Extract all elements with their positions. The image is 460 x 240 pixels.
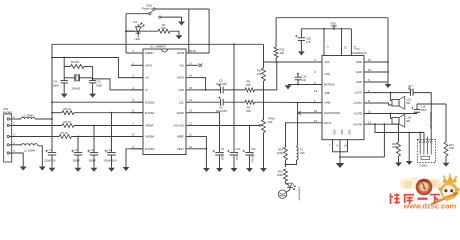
svg-text:10: 10 — [189, 145, 192, 149]
svg-text:-INB: -INB — [324, 91, 330, 95]
wire C13 top to +INA line — [297, 74, 299, 77]
wire R12 drop — [275, 18, 277, 47]
wire VDD to U2 top pin b — [341, 29, 343, 56]
VR1A wiper arrow — [259, 124, 261, 126]
svg-text:100K: 100K — [277, 151, 283, 155]
node -OUTB speaker tap — [390, 113, 392, 115]
wire volume column top — [263, 44, 265, 68]
svg-text:GND: GND — [340, 130, 343, 136]
svg-text:-OUTA: -OUTA — [354, 91, 362, 95]
node rail R5 — [51, 112, 53, 114]
capacitor C14 (OUTB coupling) — [414, 109, 420, 111]
svg-text:+ C2: + C2 — [73, 148, 79, 152]
svg-text:R13: R13 — [449, 143, 454, 147]
wire -OUTA to LS1 top — [390, 93, 392, 101]
capacitor C11 — [245, 152, 253, 154]
svg-text:14: 14 — [189, 98, 192, 102]
ground C9 — [89, 94, 96, 98]
svg-text:U1 CM8870: U1 CM8870 — [150, 45, 166, 49]
svg-text:PWDN: PWDN — [145, 51, 154, 55]
node GND rail b — [387, 71, 389, 73]
svg-text:DVDD2: DVDD2 — [145, 100, 155, 104]
wire pin18 loop top edge — [189, 8, 209, 10]
wire switch common to rail — [126, 13, 149, 15]
wire C10 to ground — [233, 155, 235, 168]
ground C4 — [108, 168, 115, 172]
wire VDD to U2 top pin a — [323, 29, 325, 56]
svg-text:10R: 10R — [449, 146, 454, 150]
wire -INA line — [264, 61, 323, 63]
wire switch lower throw — [161, 17, 182, 21]
svg-text:0.1uF: 0.1uF — [235, 154, 239, 161]
svg-text:C8: C8 — [54, 79, 58, 83]
svg-text:22K: 22K — [246, 83, 251, 87]
wire GND rail right — [387, 18, 389, 83]
connector CN1 pins — [7, 118, 9, 120]
ground R13 — [443, 163, 450, 167]
speaker LS1 — [392, 100, 399, 107]
svg-text:10K: 10K — [161, 26, 166, 30]
wire DVDD1 pin9 ground stem — [126, 149, 143, 167]
svg-text:220uF/16: 220uF/16 — [44, 159, 56, 163]
svg-text:+ C4: + C4 — [107, 148, 113, 152]
svg-text:LM4863/CS: LM4863/CS — [352, 51, 367, 55]
svg-text:AVDD: AVDD — [177, 111, 184, 115]
U1 left pin stubs and numbers — [131, 52, 143, 54]
svg-text:10K: 10K — [268, 120, 273, 124]
wire pin18 stub — [186, 52, 209, 54]
svg-text:8R: 8R — [407, 119, 410, 123]
connector CN1 — [4, 114, 12, 162]
svg-text:15MHZ: 15MHZ — [72, 86, 81, 90]
ground upper (switch throw) — [178, 22, 185, 26]
node C3 tap — [93, 125, 95, 127]
ground BYPASS — [285, 85, 292, 89]
ground TEST — [203, 168, 210, 172]
wire +OUTA to LS1 bottom — [364, 103, 392, 105]
wire C3 stem — [93, 126, 95, 153]
wire C4 stem — [111, 113, 113, 152]
LED D2 — [287, 183, 292, 187]
jack J1 contacts — [419, 141, 421, 143]
node C11 tap — [249, 125, 251, 127]
svg-text:LOL: LOL — [179, 100, 185, 104]
svg-text:0.1uF: 0.1uF — [221, 154, 225, 161]
svg-text:R9: R9 — [247, 105, 251, 109]
svg-text:T1: T1 — [300, 147, 304, 151]
svg-text:+ C3: + C3 — [89, 148, 95, 152]
watermark title — [390, 194, 401, 205]
ground C16 — [298, 51, 305, 55]
svg-text:VDD: VDD — [330, 21, 336, 25]
svg-text:4: 4 — [133, 86, 135, 90]
ground C8 — [61, 94, 68, 98]
resistor R8 — [245, 88, 255, 92]
potentiometer VR1A — [262, 120, 266, 133]
svg-text:HP-IN: HP-IN — [324, 121, 331, 125]
wire AVDD pin13 line — [198, 113, 219, 152]
node C2 tap — [77, 136, 79, 138]
svg-text:2: 2 — [133, 61, 135, 65]
wire LOL line — [198, 101, 220, 103]
svg-text:SHUTDOWN: SHUTDOWN — [324, 111, 340, 115]
op-amp U2 body — [322, 56, 364, 140]
wire LED to R1 — [138, 30, 158, 32]
power VDD symbol — [333, 26, 335, 29]
bell symbol — [278, 190, 286, 198]
wire +OUTB extension — [392, 123, 399, 125]
crystal Y1 — [74, 74, 76, 81]
wire LOR line — [198, 89, 220, 91]
wire C2 stem — [77, 137, 79, 153]
svg-text:LED: LED — [135, 37, 140, 41]
wire crystal top line — [52, 58, 143, 78]
resistor R9 — [245, 100, 255, 104]
svg-text:R10: R10 — [257, 68, 262, 72]
wire U2 bottom to ground — [339, 152, 341, 163]
node C4 tap — [111, 112, 113, 114]
node -OUTA speaker tap — [390, 92, 392, 94]
switch SW1 — [153, 8, 155, 10]
wire L1 to rail — [35, 118, 52, 120]
wire R10B to VR1A — [263, 81, 265, 120]
svg-text:+INA: +INA — [324, 72, 330, 76]
svg-text:NC: NC — [180, 63, 184, 67]
svg-text:TEST: TEST — [177, 147, 184, 151]
svg-text:VOLADJ: VOLADJ — [174, 124, 185, 128]
capacitor C16 — [298, 37, 305, 39]
resistor R4 — [64, 66, 70, 68]
svg-text:17: 17 — [189, 61, 192, 65]
svg-text:XI: XI — [145, 88, 148, 92]
svg-text:LOR: LOR — [178, 88, 184, 92]
wire pin16 jog down — [198, 78, 205, 90]
svg-text:3.5 phone jack: 3.5 phone jack — [429, 113, 432, 130]
wire pin18 loop right vertical — [208, 9, 210, 53]
wire HP-IN line — [286, 123, 323, 147]
resistor R10B — [262, 68, 266, 81]
wire R16 feed — [398, 124, 400, 142]
svg-text:VINDP: VINDP — [145, 124, 154, 128]
node crystal left top — [63, 57, 65, 59]
svg-text:GND: GND — [356, 60, 362, 64]
wire VREF pin11 line — [198, 136, 206, 138]
svg-text:R8: R8 — [247, 80, 251, 84]
wire R1 to ground — [170, 31, 179, 35]
svg-text:+OUTA: +OUTA — [353, 101, 362, 105]
svg-text:6: 6 — [133, 109, 135, 113]
wire +OUTB to sleeve gnd line — [383, 124, 385, 157]
svg-text:10K: 10K — [280, 51, 285, 55]
resistor R16 — [397, 142, 401, 156]
svg-text:VINDM: VINDM — [145, 135, 155, 139]
node line A gnd tap — [408, 132, 410, 134]
wire C6 to R9 — [223, 101, 245, 103]
wire line A to jack pin2 — [423, 133, 425, 142]
svg-text:R15: R15 — [278, 169, 283, 173]
svg-text:GND: GND — [356, 80, 362, 84]
svg-text:R5 1K: R5 1K — [64, 107, 72, 111]
svg-text:10K: 10K — [300, 151, 305, 155]
svg-text:7: 7 — [133, 122, 135, 126]
svg-text:2: 2 — [326, 46, 330, 48]
jack J1 dashed box — [417, 139, 435, 162]
svg-text:100uF/16V: 100uF/16V — [104, 159, 117, 163]
wire C7 to ground — [219, 155, 221, 168]
ground R16 — [395, 163, 402, 167]
wire C1 to ground — [51, 155, 53, 168]
resistor R13 — [444, 142, 448, 156]
node GND rail a — [387, 61, 389, 63]
wire crystal left node — [63, 58, 65, 81]
inductor L2 — [21, 144, 38, 146]
pin17 NC mark — [199, 64, 203, 68]
svg-text:C13: C13 — [302, 75, 307, 79]
svg-text:AVSS: AVSS — [177, 76, 184, 80]
svg-text:1uF: 1uF — [302, 78, 307, 82]
wire C14 bottom — [416, 112, 418, 114]
ground L2 — [39, 167, 46, 171]
wire R12 to node A — [275, 58, 277, 63]
wire pin18 loop left vertical — [188, 9, 190, 53]
ground C2 — [75, 168, 82, 172]
wire -OUTB line — [364, 113, 417, 115]
capacitor C13 (bypass) — [295, 76, 302, 78]
node rail pin5 — [51, 101, 53, 103]
svg-text:3: 3 — [314, 70, 316, 74]
LED D1 — [126, 30, 138, 32]
wire R16 to ground — [398, 156, 400, 163]
capacitor C5 (LOR coupling) — [220, 86, 222, 93]
svg-text:10uF/25V: 10uF/25V — [216, 109, 228, 113]
wire +OUTB to LS2 bottom — [364, 123, 392, 125]
ground C11 — [246, 168, 253, 172]
svg-text:C7: C7 — [221, 147, 225, 151]
wire BYPASS to ground — [288, 84, 322, 86]
svg-text:C11: C11 — [251, 147, 256, 151]
svg-text:C16: C16 — [306, 36, 311, 40]
wire CN1 pin3 to R7 — [9, 136, 59, 138]
svg-text:33pF: 33pF — [53, 83, 59, 87]
node rail-LED junction — [125, 30, 127, 32]
resistor R7 — [59, 135, 72, 139]
svg-text:33pF: 33pF — [96, 83, 102, 87]
svg-text:R4 1M: R4 1M — [71, 60, 80, 64]
svg-text:PHONE: PHONE — [3, 110, 12, 114]
svg-text:1: 1 — [133, 49, 135, 53]
node top rail / middle rail — [233, 43, 235, 45]
wire VREF-TEST vertical — [205, 137, 207, 169]
svg-text:13: 13 — [314, 89, 318, 93]
svg-text:16: 16 — [189, 74, 192, 78]
svg-text:GND: GND — [348, 130, 351, 136]
wire CN1 pin2 to R6 — [9, 125, 62, 127]
svg-text:R7 1K: R7 1K — [61, 131, 69, 135]
wire R6 to pin7 — [74, 125, 143, 127]
wire mute top line — [276, 17, 388, 19]
svg-text:18: 18 — [189, 49, 192, 53]
wire C11 stem — [249, 126, 251, 153]
svg-text:DVSS2: DVSS2 — [145, 111, 155, 115]
ground VR1A — [260, 168, 267, 172]
wire LED branch — [126, 30, 135, 32]
inductor T1 — [297, 147, 299, 160]
wire R9 to U2 +INB — [255, 101, 323, 103]
wire CN1 pin5 down — [9, 153, 23, 167]
resistor R6 — [62, 124, 74, 128]
resistor R12 — [274, 47, 278, 58]
wire C2 to ground — [77, 155, 79, 168]
svg-text:+OUTB: +OUTB — [353, 122, 362, 126]
inductor L1 — [21, 117, 35, 119]
wire switch top throw to pin18 loop — [155, 8, 189, 10]
svg-text:14: 14 — [344, 143, 347, 147]
svg-text:VR1A: VR1A — [268, 117, 275, 121]
ground pin9 — [123, 167, 130, 171]
svg-text:7: 7 — [329, 143, 331, 147]
svg-text:DVDD1: DVDD1 — [145, 147, 155, 151]
svg-text:R12: R12 — [280, 47, 285, 51]
node VREF-TEST — [206, 148, 208, 150]
svg-text:Power on: Power on — [142, 7, 154, 11]
resistor R15 — [284, 169, 288, 181]
capacitor C4 — [107, 152, 115, 154]
wire line A to jack pin1 — [419, 133, 421, 142]
svg-text:L2 10MH: L2 10MH — [24, 149, 35, 153]
wire U2 bottom pin stubs — [332, 140, 334, 152]
wire top rail edge — [52, 43, 264, 45]
wire C14 top to R13 rail — [416, 104, 418, 110]
svg-text:C17: C17 — [408, 84, 413, 88]
svg-text:D1: D1 — [134, 20, 138, 24]
wire middle rail vertical — [233, 44, 235, 152]
svg-text:GPIO: GPIO — [145, 63, 153, 67]
wire CN1 pin4 to L2 — [9, 144, 21, 146]
wire +INB branch down — [297, 103, 298, 147]
wire SHUTDOWN stub — [299, 112, 322, 114]
wire -OUTA line — [364, 92, 411, 94]
wire R8 to node A — [255, 62, 277, 90]
svg-text:8: 8 — [133, 133, 135, 137]
svg-text:-OUTB: -OUTB — [354, 112, 363, 116]
svg-text:GND: GND — [356, 70, 362, 74]
svg-text:C6: C6 — [219, 105, 223, 109]
capacitor C7 — [215, 152, 223, 154]
svg-text:13: 13 — [189, 109, 192, 113]
wire C17 to jack — [413, 93, 431, 142]
wire pin1 from rail — [126, 52, 143, 54]
wire C13 bottom to BYPASS — [297, 80, 299, 85]
svg-text:11: 11 — [189, 133, 192, 137]
wire rail to pin5 DVDD — [52, 101, 143, 103]
wire R5 to pin6 — [74, 112, 143, 114]
svg-text:8R: 8R — [407, 101, 410, 105]
node +OUTB gnd tap — [384, 123, 386, 125]
ground lower (R1) — [176, 35, 183, 39]
wire C11 to ground — [249, 155, 251, 168]
wire VOLADJ pin12 line — [198, 125, 260, 127]
svg-text:+ C1: + C1 — [47, 148, 53, 152]
wire VDD rail — [301, 28, 351, 30]
speaker LS2 — [392, 118, 399, 125]
ground CN1 pin5 — [20, 167, 27, 171]
node +INB branch — [297, 102, 299, 104]
node line A pin tap — [419, 132, 421, 134]
capacitor C3 — [90, 152, 98, 154]
svg-text:5: 5 — [133, 98, 135, 102]
wire C4 to ground — [111, 155, 113, 168]
svg-text:C5: C5 — [219, 79, 223, 83]
wire ring junction — [285, 160, 287, 167]
svg-text:15: 15 — [189, 86, 192, 90]
svg-text:R16: R16 — [392, 142, 397, 146]
capacitor C1 — [48, 152, 56, 154]
node +OUTB jack tap — [374, 123, 376, 125]
svg-text:XO: XO — [145, 76, 150, 80]
resistor R14 — [284, 147, 288, 160]
svg-text:GND: GND — [333, 130, 336, 136]
wire D2 to bell — [287, 188, 290, 192]
svg-text:9: 9 — [337, 143, 339, 147]
svg-text:9: 9 — [133, 145, 135, 149]
svg-text:100K: 100K — [277, 173, 283, 177]
capacitor C17 (OUTA coupling) — [410, 89, 412, 95]
svg-text:22K: 22K — [246, 109, 251, 113]
wire R13 to ground — [445, 156, 447, 163]
svg-text:10uF/25V: 10uF/25V — [216, 82, 228, 86]
svg-text:30uF: 30uF — [408, 87, 414, 91]
svg-text:0.047uF: 0.047uF — [251, 154, 254, 163]
capacitor C6 (LOL coupling) — [220, 99, 222, 106]
wire C16 to ground — [300, 40, 302, 51]
ground C1 — [49, 168, 56, 172]
node A (-INA junction) — [276, 61, 278, 63]
svg-text:to phone line: to phone line — [298, 187, 301, 202]
ground C7 — [216, 168, 223, 172]
svg-text:15: 15 — [343, 46, 347, 49]
svg-text:18: 18 — [193, 49, 196, 53]
wire GND pin wires — [364, 61, 388, 63]
wire jack feed line A — [375, 124, 424, 132]
svg-text:C9: C9 — [97, 79, 101, 83]
resistor R1 — [158, 29, 170, 33]
ground U2 bottom — [336, 163, 345, 168]
capacitor C10 — [230, 152, 238, 154]
wire jack sleeve line — [340, 156, 384, 158]
svg-text:C14: C14 — [421, 104, 426, 108]
wire R15 to LED D2 — [285, 181, 287, 184]
wire line A ground drop — [408, 133, 410, 162]
wire R7 to pin8 — [72, 136, 144, 138]
capacitor C9 — [89, 80, 96, 82]
SHUTDOWN NC mark — [297, 111, 301, 115]
resistor R5 — [62, 111, 74, 115]
svg-text:R14: R14 — [278, 147, 283, 151]
svg-text:C10: C10 — [236, 147, 241, 151]
svg-text:R6 1K: R6 1K — [64, 120, 72, 124]
wire VDD to U2 top pin c — [350, 29, 352, 56]
svg-text:BYPASS: BYPASS — [324, 83, 335, 87]
svg-text:VREF: VREF — [177, 135, 185, 139]
op-amp U1 body — [143, 49, 186, 155]
svg-text:30uF: 30uF — [421, 108, 427, 112]
svg-text:100uF: 100uF — [89, 159, 97, 163]
svg-text:3.5MIC: 3.5MIC — [420, 164, 428, 168]
wire C3 to ground — [93, 155, 95, 168]
capacitor C2 — [74, 152, 82, 154]
ground C3 — [91, 168, 98, 172]
wire crystal right node — [92, 67, 94, 81]
